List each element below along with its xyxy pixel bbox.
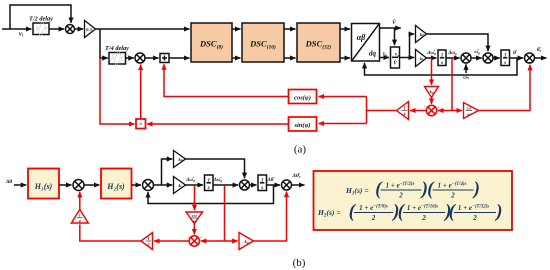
svg-text:cos(φ): cos(φ) [294,95,311,102]
svg-text:kᵢ: kᵢ [420,56,423,61]
label theta_c [537,47,542,53]
multiplier A1 [66,25,75,34]
svg-text:T/2 delay: T/2 delay [29,16,53,23]
label theta hat [513,50,518,56]
label T/2 delay [29,16,53,23]
wire down to divider [394,28,396,45]
svg-text:kₚ: kₚ [420,32,424,37]
T/4 delay block [109,51,126,65]
wire mult to A2 [140,65,142,120]
wire to DSC8 top input [96,28,190,30]
svg-text:H1(s) =: H1(s) = [345,186,369,196]
gain kd b [239,233,254,250]
summer B3 [240,180,250,190]
red tap from dw_g b [224,185,226,241]
svg-text:64: 64 [193,220,197,224]
cos block [289,90,317,104]
wire [232,28,241,30]
nominal frequency input [463,64,470,80]
wire into kd b [225,240,238,242]
wire T/2 to 1/4 [80,225,141,242]
red tap of input signal [100,58,135,124]
summer A3 [461,53,471,63]
input dtheta [5,179,26,185]
gain T/2 red [141,233,153,250]
label dw_d [426,51,436,56]
integrator 1/s b1 [205,175,214,191]
summer B2 [143,180,154,191]
gain 0.5 [85,21,96,38]
svg-text:kₚ: kₚ [179,157,183,162]
label dwhat_d b [185,178,195,183]
integrator 1/s [438,50,446,66]
sin output wire to multiplier box [147,123,289,125]
gain T/4 red [397,102,409,120]
wire [284,28,296,30]
svg-text:αβ: αβ [357,33,366,42]
label w_g [474,50,480,55]
svg-text:): ) [494,202,502,222]
wire [284,57,296,59]
wire into 23T/64 [452,110,462,112]
gain 1/4 up [71,210,88,224]
gain kd red [425,87,439,98]
wire [154,184,173,186]
wire [49,28,64,30]
wire [75,28,84,30]
svg-text:s: s [503,61,506,66]
svg-text:Δω̂d: Δω̂d [426,51,436,56]
svg-text:×: × [139,121,143,128]
svg-text:4: 4 [403,113,406,117]
svg-text:64: 64 [467,113,471,117]
wire kd to B4 [254,192,287,242]
red multiplier box [136,119,146,129]
wire [213,184,238,186]
svg-text:Δωg: Δωg [447,51,457,56]
wire [193,224,195,235]
wire [340,28,350,30]
wire into R1 [438,110,452,112]
label Vhat [392,19,397,26]
equation H2 [317,202,502,222]
multiplier A2 [135,53,145,63]
feedback wire to B2 [148,185,274,204]
svg-text:vq: vq [383,52,387,57]
wire [59,184,72,186]
wire 1/4 to B1 [79,192,81,210]
wire [100,57,108,59]
wire R2 to T/2 [154,240,189,242]
adder box [160,54,169,63]
svg-text:(b): (b) [293,257,306,269]
label dtheta_c [292,173,301,179]
gain 23T/64 down [186,212,203,224]
wire into sin [319,123,367,125]
equation H1 [345,180,480,200]
red summer R1 [424,104,440,116]
wire [145,57,159,59]
wire [493,57,500,59]
DSC32 block [297,23,340,62]
svg-text:s: s [260,186,263,191]
svg-text:4: 4 [78,220,81,224]
divider block vq/V [391,47,400,68]
integrator 1/s second [501,50,510,66]
summer A4 [483,53,493,63]
wire d output [380,27,395,29]
svg-text:Δω̂d: Δω̂d [185,178,195,183]
svg-text:): ) [472,180,480,200]
gain 23T/64 [464,103,479,119]
T/2 delay block [33,22,49,36]
H2 block [101,169,132,199]
svg-text:H₁(s): H₁(s) [34,182,53,191]
wire [471,57,482,59]
wire split to cos and sin [367,97,397,124]
wire [340,57,350,59]
DSC8 block [191,23,232,62]
caption (b) [293,257,306,269]
svg-text:dq: dq [369,50,377,58]
wire into R2 [201,240,225,242]
svg-text:(a): (a) [294,144,307,156]
label dw_g [447,51,457,56]
DSC16 block [242,23,284,62]
kp feedforward wire [427,34,489,51]
feedback wire theta to dq [365,58,518,75]
svg-text:s: s [440,61,443,66]
svg-text:Δω̂g: Δω̂g [213,178,223,183]
feedforward wire over top [10,5,71,29]
equation box [314,171,513,230]
H1 block [28,169,59,199]
svg-text:kᵢ: kᵢ [179,183,182,188]
svg-text:1: 1 [79,214,81,218]
red summer R2 [187,235,203,247]
summer B1 [73,180,84,191]
svg-text:2: 2 [398,192,403,200]
integrator 1/s b2 [258,175,267,191]
red tap wire from dw_d [431,58,433,85]
wire [446,57,460,59]
label v1 [19,31,24,38]
gain ki [416,50,427,67]
input v1 wire [2,28,32,30]
wire [126,57,134,59]
gain ki b [174,177,186,194]
kp wire to summer B3 [186,159,245,178]
red tap from dw_d b [194,185,196,210]
output wire [535,57,547,59]
wire [400,57,415,59]
svg-text:H2(s) =: H2(s) = [317,208,341,218]
red tap wire from dw_g [451,58,453,111]
wire [431,98,433,105]
wire [267,184,281,186]
svg-text:0.5: 0.5 [86,27,92,32]
svg-text:H₂(s): H₂(s) [106,182,125,191]
wire [169,57,190,59]
wire [186,184,204,186]
svg-text:sin(φ): sin(φ) [293,122,310,129]
wire q output [380,57,390,59]
svg-text:2: 2 [472,214,477,222]
label dw_g b [213,178,223,183]
wire to output summer [479,65,531,111]
label vq [383,52,387,57]
svg-text:Δθ: Δθ [5,179,12,185]
output wire [292,184,305,186]
svg-text:ω̂g: ω̂g [474,50,480,55]
wire into cos [319,96,367,98]
svg-text:23T: 23T [191,214,198,218]
branch up to kp [162,159,173,185]
summer B4 [282,180,292,190]
wire [232,57,241,59]
V amplitude stub [395,27,401,29]
gain kp [416,26,427,43]
label T/4 delay [105,45,129,52]
sin block [289,117,317,131]
wire R1 to T/4 [410,110,426,112]
wire [510,57,524,59]
svg-text:23T: 23T [465,107,472,111]
svg-text:2: 2 [421,214,426,222]
label dtheta hat [267,178,276,183]
svg-text:s: s [207,186,210,191]
caption (a) [294,144,307,156]
abc/dq transform block [352,24,380,62]
gain kp b [174,151,186,168]
wire [427,57,437,59]
branch wire up to kp [410,34,415,58]
svg-text:2: 2 [147,243,150,247]
svg-text:2: 2 [371,214,376,222]
wire [84,184,100,186]
branch wire down [99,29,101,58]
cos output wire to adder [164,64,289,96]
summer A5 [525,53,535,63]
svg-text:2: 2 [450,192,455,200]
wire [132,184,142,186]
wire [250,184,257,186]
svg-text:T/4 delay: T/4 delay [105,45,129,52]
